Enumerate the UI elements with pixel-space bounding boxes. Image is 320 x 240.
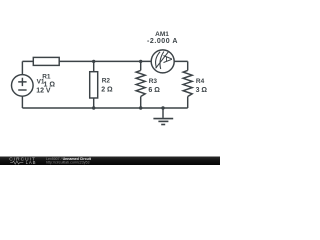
wire: left drop from top rail to V1 xyxy=(21,61,23,74)
voltage source V1 xyxy=(11,75,33,97)
footer bar xyxy=(0,157,220,166)
node: R3 bottom junction xyxy=(139,106,142,109)
node: R3 top junction xyxy=(139,60,142,63)
svg-text:R3: R3 xyxy=(149,78,158,85)
svg-text:R4: R4 xyxy=(196,78,205,85)
svg-text:6 Ω: 6 Ω xyxy=(148,87,160,94)
node: R2 top junction xyxy=(92,60,95,63)
node: ground junction xyxy=(161,106,164,109)
resistor R4 xyxy=(183,70,192,96)
wire: R3 bottom stub xyxy=(140,97,142,109)
resistor R1 xyxy=(33,57,59,65)
wire: R4 right drop xyxy=(187,61,189,70)
svg-text:V1: V1 xyxy=(37,78,45,85)
footer logo zigzag xyxy=(10,161,23,164)
wire: R3 top stub xyxy=(140,61,142,70)
svg-text:R2: R2 xyxy=(102,78,111,85)
svg-text:2 Ω: 2 Ω xyxy=(101,87,113,94)
resistor R2 xyxy=(90,72,98,98)
svg-text:3 Ω: 3 Ω xyxy=(196,87,208,94)
node: R2 bottom junction xyxy=(92,106,95,109)
wire: V1 bottom to bottom rail xyxy=(21,96,23,108)
wire: bottom rail xyxy=(22,107,187,109)
svg-text:LAB: LAB xyxy=(26,160,37,165)
svg-text:12 V: 12 V xyxy=(36,88,51,95)
wire: top rail xyxy=(22,60,187,62)
svg-text:-2.000 A: -2.000 A xyxy=(147,38,178,45)
wire: R4 bottom stub xyxy=(187,97,189,109)
resistor R3 xyxy=(136,70,145,96)
svg-text:http://circuitlab.com/c23y53: http://circuitlab.com/c23y53 xyxy=(46,161,90,165)
wire: R2 bottom stub xyxy=(93,98,95,108)
ammeter AM1 xyxy=(151,50,174,73)
svg-text:A: A xyxy=(161,55,175,64)
ground xyxy=(153,108,173,125)
wire: R2 top stub xyxy=(93,61,95,71)
svg-text:AM1: AM1 xyxy=(155,31,169,38)
